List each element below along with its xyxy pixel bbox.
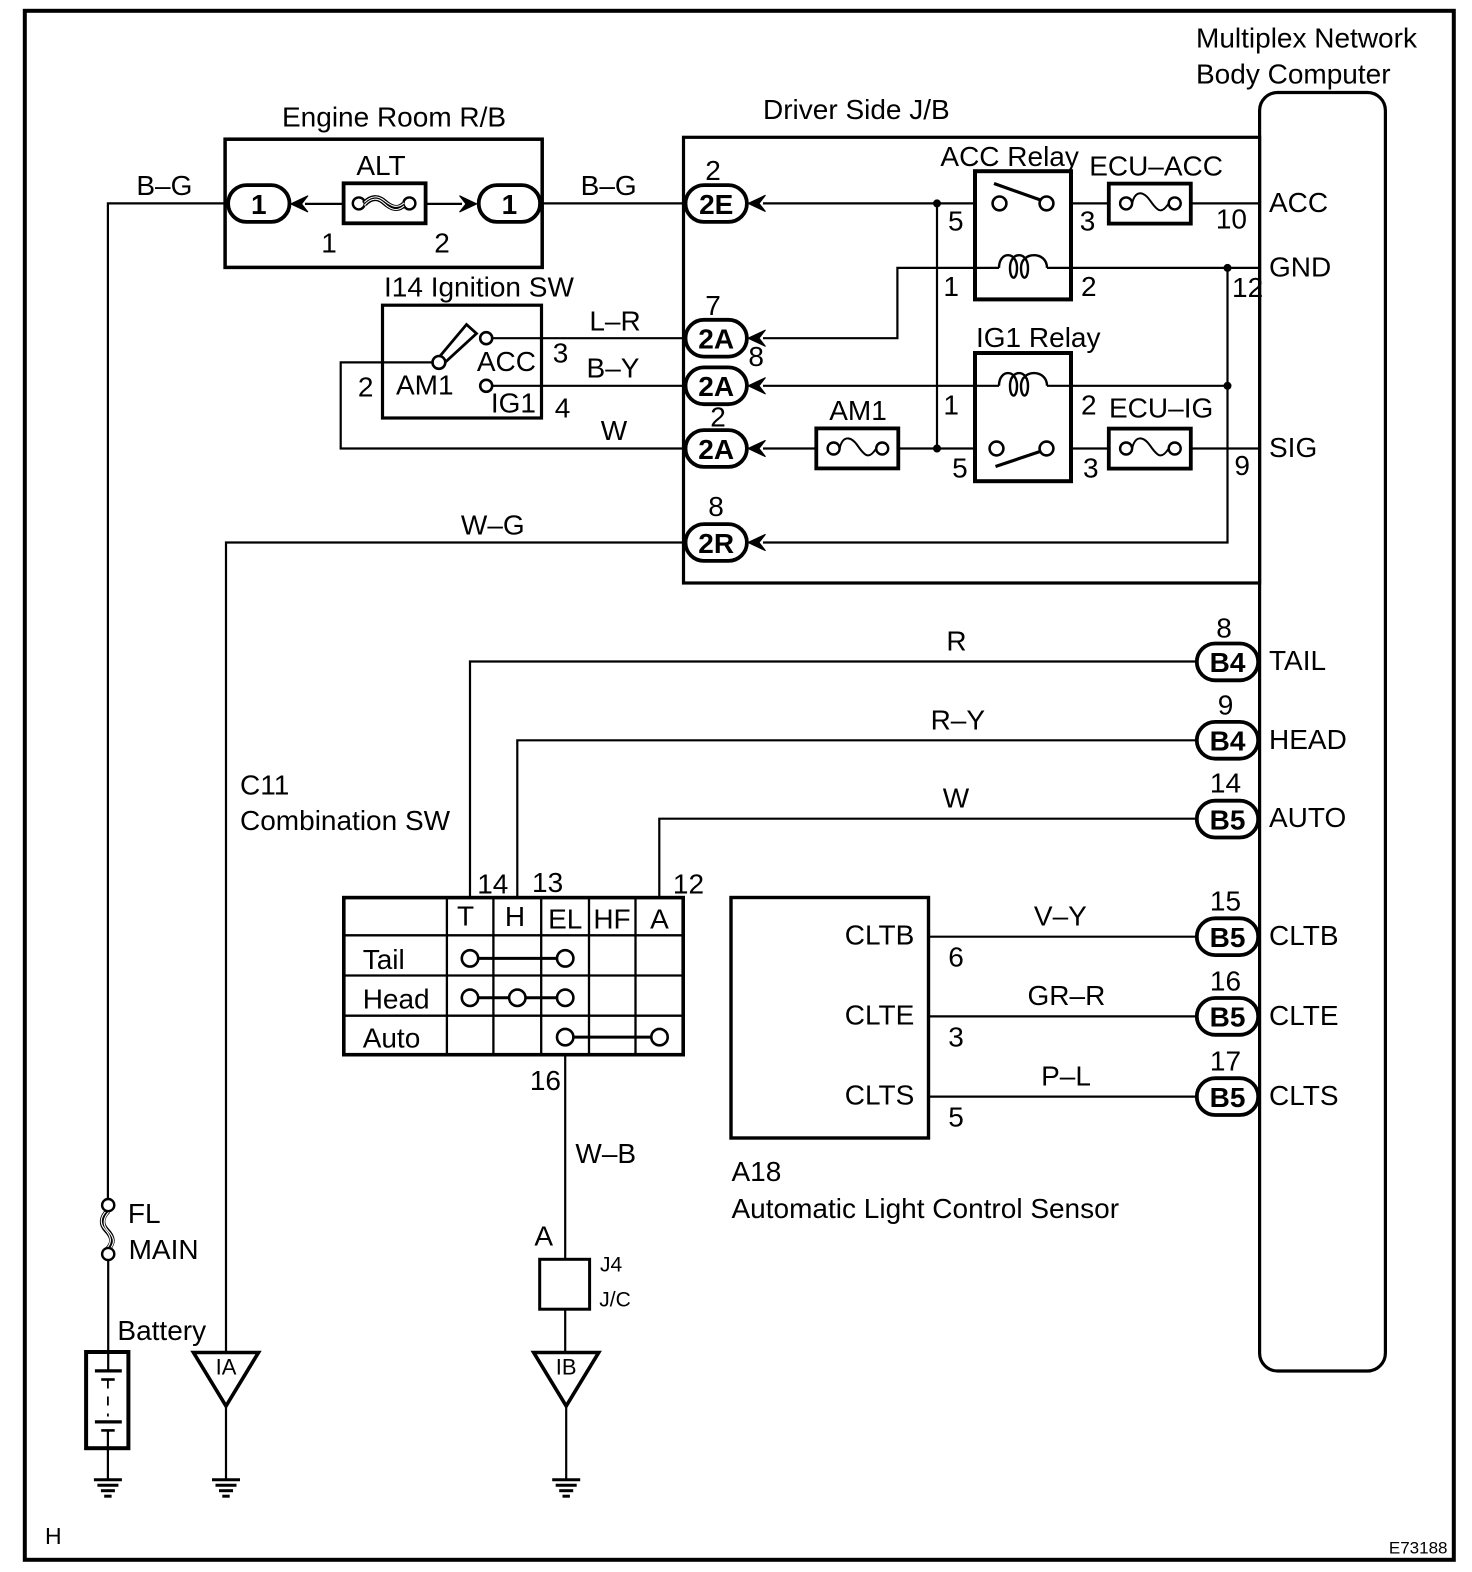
arrow at 2A pin 7 [748, 330, 766, 346]
relay IG1: coil wire through box [975, 385, 999, 387]
wire IA to ground [225, 1406, 227, 1480]
svg-text:Tail: Tail [363, 944, 405, 975]
connector 2A pin 7 [686, 320, 747, 357]
ground triangle IB [534, 1353, 599, 1407]
svg-text:AM1: AM1 [396, 370, 454, 401]
junction dot (2E wire / IG1 branch) [933, 199, 941, 207]
svg-text:ACC: ACC [1269, 187, 1328, 218]
svg-text:R: R [946, 626, 966, 657]
svg-text:A: A [650, 904, 669, 935]
arrow into right oval [460, 196, 477, 212]
switch lever blade [441, 325, 477, 362]
wire R-Y from comb SW pin13 to HEAD [517, 740, 1197, 898]
battery box [86, 1352, 128, 1448]
svg-text:15: 15 [1210, 886, 1241, 917]
svg-text:5: 5 [948, 1102, 964, 1133]
wire W-B from comb SW pin16 down to J4 [564, 1055, 566, 1260]
svg-text:IA: IA [216, 1355, 237, 1380]
svg-text:IB: IB [556, 1355, 577, 1380]
svg-text:L–R: L–R [589, 306, 640, 337]
wire R from comb SW pin14 to TAIL [470, 662, 1198, 899]
wire IG1 contact to 2A pin8 [492, 385, 686, 387]
svg-text:4: 4 [555, 393, 571, 424]
svg-text:B5: B5 [1210, 922, 1246, 953]
switch contact IG1 [480, 380, 492, 392]
svg-text:AUTO: AUTO [1269, 802, 1346, 833]
svg-text:W–B: W–B [575, 1138, 636, 1169]
wire ACC relay pin3 to ECU-ACC fuse [1071, 202, 1109, 204]
svg-text:H: H [505, 901, 525, 932]
svg-text:1: 1 [943, 271, 959, 302]
svg-text:Body Computer: Body Computer [1196, 59, 1391, 90]
svg-text:V–Y: V–Y [1034, 901, 1087, 932]
svg-text:B5: B5 [1210, 1082, 1246, 1113]
svg-text:A: A [534, 1221, 553, 1252]
svg-text:W: W [601, 415, 628, 446]
wire vertical branch from 2E wire down to AM1 row [936, 203, 938, 448]
svg-text:Multiplex Network: Multiplex Network [1196, 23, 1418, 54]
svg-text:ACC: ACC [477, 346, 536, 377]
svg-text:9: 9 [1234, 450, 1250, 481]
svg-text:CLTB: CLTB [1269, 920, 1339, 951]
svg-text:HF: HF [593, 904, 630, 935]
svg-text:10: 10 [1216, 203, 1247, 234]
block: Engine Room R/B box [225, 139, 542, 267]
svg-text:17: 17 [1210, 1046, 1241, 1077]
connector B4 (TAIL) [1197, 644, 1258, 681]
svg-text:MAIN: MAIN [129, 1234, 199, 1265]
ground (IB) [552, 1480, 580, 1497]
connector B5 (CLTE) [1197, 998, 1258, 1035]
block: A18 sensor box [731, 898, 929, 1139]
wire from arrow to ALT fuse [305, 203, 345, 205]
wire AM1 fuse to IG1 relay pin 5 [898, 447, 975, 449]
junction dot (AM1 row / vertical branch) [933, 445, 941, 453]
svg-text:8: 8 [708, 491, 724, 522]
battery plates [95, 1371, 122, 1431]
ground (battery) [94, 1480, 122, 1497]
connector B5 (CLTB) [1197, 918, 1258, 955]
fuse ECU-IG [1109, 429, 1191, 469]
svg-text:CLTE: CLTE [845, 999, 915, 1030]
svg-text:Engine Room R/B: Engine Room R/B [282, 102, 506, 133]
connector 2E [686, 185, 747, 222]
svg-text:TAIL: TAIL [1269, 645, 1326, 676]
switch pivot contact AM1 [433, 356, 446, 369]
svg-text:2: 2 [358, 372, 374, 403]
svg-text:1: 1 [502, 189, 518, 220]
svg-text:Driver Side J/B: Driver Side J/B [763, 94, 950, 125]
relay IG1: box [975, 353, 1071, 481]
ground (IA) [212, 1480, 240, 1497]
svg-text:J/C: J/C [599, 1288, 631, 1311]
svg-text:B–G: B–G [136, 170, 192, 201]
svg-text:B4: B4 [1210, 647, 1246, 678]
svg-text:CLTS: CLTS [845, 1080, 915, 1111]
svg-text:3: 3 [553, 338, 569, 369]
wire 2E to ACC relay pin 5 [763, 202, 975, 204]
svg-text:6: 6 [948, 942, 964, 973]
svg-text:14: 14 [1210, 768, 1241, 799]
svg-text:Head: Head [363, 983, 430, 1014]
connector B5 (AUTO) [1197, 801, 1258, 838]
svg-text:Combination SW: Combination SW [240, 805, 451, 836]
wire IG1 relay pin2 to GND vertical [1071, 385, 1228, 387]
svg-text:2A: 2A [698, 371, 734, 402]
wire J4 to IB triangle [564, 1309, 566, 1352]
svg-text:B–Y: B–Y [587, 353, 640, 384]
svg-text:7: 7 [705, 290, 721, 321]
fuse ECU-ACC [1109, 184, 1191, 224]
wire FL MAIN to battery [107, 1260, 109, 1371]
svg-text:ECU–IG: ECU–IG [1109, 393, 1213, 424]
arrow at 2E [748, 195, 766, 211]
svg-text:B5: B5 [1210, 1002, 1246, 1033]
ground triangle IA [194, 1353, 259, 1407]
table row lines [344, 935, 683, 1015]
junction dot (IG1 coil / GND vertical) [1224, 382, 1232, 390]
arrow into left oval [291, 196, 308, 212]
svg-text:ECU–ACC: ECU–ACC [1089, 150, 1223, 181]
svg-text:GND: GND [1269, 251, 1331, 282]
wire B-G from battery feed to engine room R/B [108, 203, 228, 1199]
svg-text:3: 3 [948, 1021, 964, 1052]
svg-text:2: 2 [434, 228, 450, 259]
label: Multiplex Network Body Computer [1196, 23, 1418, 90]
svg-text:T: T [457, 901, 474, 932]
wire from AM1 pivot out of box down to W row [341, 362, 687, 448]
svg-text:5: 5 [952, 453, 968, 484]
wire ACC contact to 2A pin7 [492, 337, 686, 339]
relay ACC: switch blade [994, 184, 1041, 201]
svg-text:B4: B4 [1210, 726, 1246, 757]
svg-text:13: 13 [532, 867, 563, 898]
wire from 2A pin2 arrow to AM1 fuse [763, 447, 817, 449]
svg-text:SIG: SIG [1269, 432, 1317, 463]
svg-text:Auto: Auto [363, 1023, 421, 1054]
wire B-Y from 2A pin8 to IG1 relay coil pin 1 [763, 385, 975, 387]
svg-text:ACC Relay: ACC Relay [940, 141, 1078, 172]
wire L-R from 2A pin7 to ACC relay coil pin 1 [763, 268, 975, 338]
block: ignition switch box [383, 305, 542, 418]
svg-text:Automatic Light Control Sensor: Automatic Light Control Sensor [732, 1193, 1120, 1224]
svg-text:HEAD: HEAD [1269, 724, 1347, 755]
fuse ALT (fusible link) [344, 183, 426, 223]
connector B5 (CLTS) [1197, 1078, 1258, 1115]
svg-text:2R: 2R [698, 528, 734, 559]
relay ACC: box [975, 171, 1071, 299]
wire V-Y from A18 pin6 to CLTB [929, 936, 1198, 938]
Head row contacts [462, 990, 574, 1006]
svg-text:Battery: Battery [117, 1315, 206, 1346]
svg-text:W: W [943, 783, 970, 814]
arrow at 2R [748, 534, 766, 550]
svg-text:R–Y: R–Y [931, 704, 986, 735]
table column lines [447, 898, 636, 1055]
svg-text:CLTS: CLTS [1269, 1080, 1339, 1111]
junction block J4 box [540, 1259, 590, 1309]
wire P-L from A18 pin5 to CLTS [929, 1095, 1198, 1097]
svg-text:C11: C11 [240, 769, 289, 800]
connector B4 (HEAD) [1197, 722, 1258, 759]
svg-text:2A: 2A [698, 324, 734, 355]
svg-text:CLTB: CLTB [845, 920, 915, 951]
svg-text:IG1: IG1 [491, 388, 536, 419]
wire B-G from engine room R/B to 2E [542, 202, 687, 204]
relay ACC: coil [999, 255, 1047, 278]
wire IG1 relay pin3 to ECU-IG fuse [1071, 447, 1109, 449]
wire from 2R arrow to GND vertical [763, 268, 1228, 543]
svg-text:9: 9 [1218, 689, 1234, 720]
svg-text:1: 1 [321, 228, 337, 259]
wire battery to ground [107, 1430, 109, 1479]
svg-text:IG1 Relay: IG1 Relay [976, 322, 1101, 353]
svg-text:2A: 2A [698, 434, 734, 465]
relay ACC: contact circles [993, 197, 1007, 211]
connector 1 (right oval, Engine Room R/B) [479, 185, 540, 222]
block: driver side J/B box [684, 137, 1260, 583]
svg-text:2: 2 [1081, 390, 1097, 421]
svg-text:3: 3 [1080, 206, 1096, 237]
connector 1 (left oval, Engine Room R/B) [228, 185, 289, 222]
relay IG1: switch blade [996, 450, 1047, 467]
arrow at 2A pin 2 [748, 440, 766, 456]
svg-text:16: 16 [530, 1065, 561, 1096]
svg-text:H: H [45, 1523, 62, 1549]
svg-text:2E: 2E [699, 189, 733, 220]
svg-text:I14 Ignition SW: I14 Ignition SW [384, 272, 574, 303]
svg-text:16: 16 [1210, 965, 1241, 996]
svg-text:B–G: B–G [581, 170, 637, 201]
svg-text:E73188: E73188 [1389, 1539, 1448, 1558]
svg-text:P–L: P–L [1041, 1061, 1091, 1092]
svg-text:2: 2 [710, 402, 726, 433]
svg-text:5: 5 [948, 206, 964, 237]
svg-text:A18: A18 [732, 1156, 782, 1187]
svg-text:8: 8 [1216, 613, 1232, 644]
Auto row contacts [557, 1029, 668, 1045]
relay IG1: contact circles [990, 442, 1004, 456]
wire GR-R from A18 pin3 to CLTE [929, 1015, 1198, 1017]
connector 2R [686, 524, 747, 561]
svg-text:FL: FL [128, 1198, 161, 1229]
svg-text:1: 1 [943, 390, 959, 421]
svg-text:2: 2 [1081, 271, 1097, 302]
switch contact ACC [480, 332, 492, 344]
svg-text:12: 12 [673, 869, 704, 900]
svg-text:CLTE: CLTE [1269, 1000, 1339, 1031]
wire from ALT fuse to right arrow [426, 203, 462, 205]
svg-text:1: 1 [251, 189, 267, 220]
svg-text:8: 8 [748, 341, 764, 372]
svg-text:W–G: W–G [461, 510, 525, 541]
wire ECU-IG fuse to SIG pin 9 [1191, 447, 1260, 449]
fusible link FL MAIN [101, 1199, 114, 1260]
wire W-G from combination SW feed to 2R [226, 543, 687, 1353]
svg-text:ALT: ALT [356, 150, 405, 181]
fuse AM1 [816, 428, 898, 468]
wire ACC relay pin2 to GND pin 12 [1071, 267, 1260, 269]
svg-text:3: 3 [1083, 453, 1099, 484]
relay IG1: coil [999, 373, 1047, 396]
relay ACC: coil wire through box [975, 267, 999, 269]
svg-text:J4: J4 [600, 1254, 623, 1277]
wire IB to ground [565, 1406, 567, 1480]
junction dot (GND wire / vertical) [1224, 264, 1232, 272]
wire W from comb SW pin12 to AUTO [659, 819, 1197, 898]
Tail row contacts [462, 950, 574, 966]
svg-text:EL: EL [548, 904, 582, 935]
ECU U1: multiplex body computer outline [1260, 93, 1386, 1372]
combination switch table box [344, 898, 683, 1055]
connector 2A pin 8 [686, 367, 747, 404]
svg-text:2: 2 [705, 155, 721, 186]
svg-text:GR–R: GR–R [1028, 980, 1106, 1011]
svg-text:AM1: AM1 [829, 395, 887, 426]
connector 2A pin 2 [686, 430, 747, 467]
svg-text:B5: B5 [1210, 804, 1246, 835]
svg-text:14: 14 [477, 869, 508, 900]
wire ECU-ACC fuse to ACC pin 10 [1191, 202, 1260, 204]
arrow at 2A pin 8 [748, 378, 766, 394]
